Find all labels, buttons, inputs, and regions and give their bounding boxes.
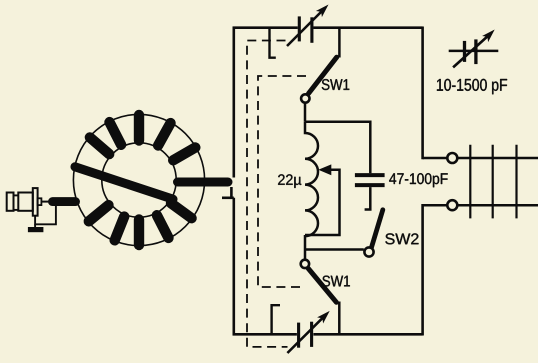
feedline ladder rung 2 [492, 145, 494, 219]
wire: output top [423, 157, 448, 160]
main loop box [222, 27, 423, 336]
wire: rail to SW1 bottom pivot [304, 250, 307, 260]
terminal bottom [447, 200, 457, 210]
capacitor C2 adjustment arrow [287, 317, 323, 353]
wire: box bottom edge (left of C2) [233, 333, 297, 336]
switch SW1 top: blade [309, 57, 337, 93]
toroid outer ring [73, 114, 204, 245]
wire: toroid winding bar 6 (219.5 deg) [89, 205, 109, 221]
label SW2 [385, 233, 418, 244]
coax connector J1 center pin [38, 198, 42, 205]
switch SW1 bottom: pivot [301, 260, 309, 268]
wire: tap arrow on L2 [305, 170, 340, 235]
wire: box top edge (right of C1) [313, 26, 422, 29]
wire: toroid winding bar 7 (248 deg) [115, 217, 125, 241]
wire: connector pin to input bar [41, 201, 49, 203]
wire: box top edge (left of C1) [233, 26, 298, 29]
wire: toroid winding bar 1 (30 deg) [173, 148, 195, 161]
wire: toroid winding bar 5 (139 deg) [90, 137, 109, 154]
capacitor C4 adjustment arrow [453, 35, 489, 67]
wire: toroid winding bar 9 (297 deg) [157, 215, 169, 238]
ground [28, 227, 44, 232]
label SW1 (top) [322, 79, 349, 90]
switch SW1 top: feed wire [338, 28, 341, 58]
coax connector J1 neck [14, 194, 19, 196]
coax connector J1 body [7, 193, 14, 211]
wire: toroid winding bar 10 (324 deg) [171, 203, 192, 218]
switch SW2 pivot [364, 247, 373, 256]
wire: box right edge lower [421, 204, 424, 336]
wire: thick output bar from toroid to box [178, 178, 229, 187]
wire: box bottom edge (right of C2) [313, 333, 422, 336]
inductor L2 (22u) [305, 122, 318, 250]
label 47-100pF [389, 173, 447, 187]
switch SW2 blade [372, 210, 383, 248]
wire: box left edge [233, 27, 236, 178]
coax connector J1 shell [18, 193, 33, 211]
wire: SW1 bottom to box bottom [338, 302, 341, 335]
wire: stub at wiper entry [222, 197, 234, 200]
capacitor C1 (top, variable) frame stub [270, 29, 276, 58]
wire: node to C3 branch [305, 122, 370, 174]
capacitor C1 adjustment arrow [287, 11, 323, 47]
wire: toroid winding bar 2 (61 deg) [158, 123, 170, 145]
mechanical link (dashed) capacitor gang [247, 41, 288, 347]
toroid inner ring [102, 143, 176, 217]
switch SW1 bottom: blade [308, 269, 336, 303]
wire: thick input bar to toroid [53, 197, 76, 206]
toroidal inductor L1 [73, 114, 204, 245]
wire: connector shell to ground [35, 204, 56, 224]
capacitor C1 plates [298, 16, 301, 41]
coax connector J1 flange [33, 188, 38, 216]
label 22u [278, 174, 301, 188]
wire: C3 bottom to SW2 fixed contact [365, 187, 371, 209]
wire: output bottom [423, 204, 448, 207]
switch SW1 top: pivot [301, 94, 309, 102]
wire: box right edge upper [421, 27, 424, 160]
feedline ladder rung 3 [515, 145, 517, 219]
wire: toroid winding bar 3 (90 deg) [134, 115, 144, 141]
capacitor C4 plates [463, 41, 466, 62]
terminal top [447, 153, 457, 163]
wire: bottom rail L2 to SW2 [305, 248, 364, 251]
wire: toroid winding bar 4 (117 deg) [110, 122, 122, 145]
wire: toroid winding bar 8 (270 deg) [134, 220, 144, 246]
feedline ladder rung 1 [469, 145, 471, 219]
mechanical link (dashed) switch gang [258, 76, 306, 287]
capacitor C2 plates [297, 323, 300, 348]
wire: SW1 top pivot to node [304, 103, 307, 121]
wire: rotary wiper arm across toroid [75, 167, 173, 199]
capacitor C4 (10-1500 pF) lead [449, 50, 499, 53]
label 10-1500 pF [437, 79, 507, 94]
capacitor C3 (47-100pF) plates [355, 173, 385, 177]
label SW1 (bottom) [322, 276, 349, 287]
capacitor C2 (bottom, variable) frame stub [272, 305, 280, 334]
